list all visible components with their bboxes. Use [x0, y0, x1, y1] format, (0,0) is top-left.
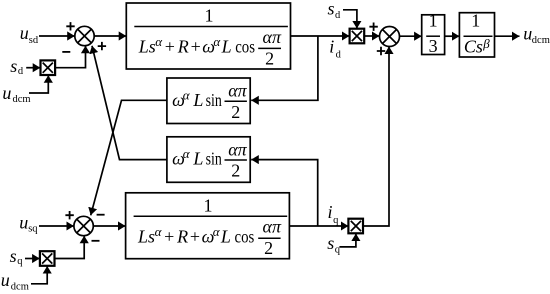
- svg-text:sin: sin: [206, 149, 222, 169]
- svg-text:β: β: [482, 36, 490, 51]
- summing junction S1: [75, 26, 94, 45]
- label u_dcm output: [523, 24, 550, 47]
- svg-text:sq: sq: [28, 224, 38, 235]
- svg-text:R: R: [176, 226, 188, 246]
- svg-text:1: 1: [205, 6, 214, 26]
- sign - at S3 lower right: [92, 240, 100, 242]
- svg-text:u: u: [2, 83, 11, 103]
- wire B1 output to multiplier M2: [291, 35, 350, 37]
- svg-text:1: 1: [204, 195, 213, 215]
- svg-text:α: α: [183, 87, 191, 102]
- wire B3 to block B4: [445, 35, 460, 37]
- block B6 omega^a L sin(api/2) lower: [167, 137, 250, 183]
- svg-text:2: 2: [265, 49, 274, 69]
- svg-text:d: d: [18, 66, 24, 77]
- block B4 transfer function 1/(Cs^b): [459, 11, 494, 58]
- multiplier M3: [40, 251, 55, 266]
- svg-text:απ: απ: [263, 27, 282, 47]
- sign + at S1 lower right: [98, 42, 106, 50]
- svg-text:d: d: [336, 50, 342, 61]
- block B3 gain 1/3: [422, 11, 445, 56]
- multiplier M2: [350, 29, 365, 44]
- svg-text:Ls: Ls: [138, 37, 156, 57]
- svg-text:q: q: [17, 256, 23, 267]
- svg-text:i: i: [328, 202, 333, 222]
- svg-text:R: R: [177, 37, 189, 57]
- sign - at S1 lower left: [62, 51, 70, 53]
- svg-text:dcm: dcm: [13, 94, 31, 105]
- wire B4 to output u_dcm: [495, 35, 520, 37]
- label s_q left: [10, 246, 24, 267]
- summing junction S3: [74, 216, 93, 235]
- svg-text:s: s: [10, 56, 17, 76]
- svg-text:α: α: [213, 34, 221, 49]
- svg-text:q: q: [333, 215, 339, 226]
- svg-text:cos: cos: [235, 226, 255, 246]
- svg-text:cos: cos: [235, 37, 255, 57]
- wire M2 output to summing junction S2: [364, 35, 379, 37]
- block B5 omega^a L sin(api/2) upper: [167, 78, 250, 124]
- svg-text:2: 2: [264, 238, 273, 258]
- wire u_sd input to summing junction S1: [39, 35, 75, 37]
- svg-text:s: s: [327, 233, 334, 253]
- label i_q: [328, 202, 340, 226]
- svg-text:i: i: [329, 37, 334, 57]
- wire M4 output up to summing junction S2: [363, 47, 389, 227]
- svg-text:+: +: [191, 37, 201, 57]
- svg-text:απ: απ: [263, 217, 282, 237]
- wire S2 to block B3: [400, 35, 422, 37]
- wire branch node i_q up to sin block B6: [251, 160, 318, 226]
- wire M1 output to S1 lower input: [55, 46, 85, 68]
- block B2 transfer function 1/(Ls^a+R+w^a L cos(api/2)): [126, 193, 290, 259]
- wire u_dcm to M3 bottom: [31, 266, 47, 284]
- svg-text:d: d: [335, 10, 341, 21]
- svg-text:sd: sd: [29, 35, 39, 46]
- svg-text:Ls: Ls: [137, 226, 155, 246]
- svg-text:α: α: [183, 146, 191, 161]
- svg-text:απ: απ: [228, 139, 247, 159]
- svg-text:u: u: [20, 23, 29, 43]
- wire s_q to M4 bottom: [339, 234, 356, 247]
- svg-text:+: +: [190, 226, 200, 246]
- label u_sq: [19, 212, 38, 234]
- wire s_q to multiplier M3: [25, 258, 40, 260]
- wire s_d to M2 top: [343, 10, 357, 29]
- wire s_d to multiplier M1: [26, 67, 40, 69]
- svg-text:2: 2: [231, 102, 240, 122]
- label s_d upper right: [328, 0, 342, 21]
- label u_sd: [20, 23, 39, 46]
- sign - at S3 upper right: [97, 214, 105, 216]
- svg-text:3: 3: [429, 36, 438, 56]
- svg-text:dcm: dcm: [532, 35, 550, 46]
- multiplier M4: [348, 219, 363, 234]
- wire u_dcm to M1 bottom: [29, 75, 48, 93]
- svg-text:u: u: [1, 270, 10, 290]
- svg-text:L: L: [192, 90, 203, 110]
- wire B5 output diagonal to summing junction S3: [91, 100, 167, 215]
- svg-text:α: α: [213, 224, 221, 239]
- sign + at S2 lower left: [377, 47, 385, 55]
- multiplier M1: [41, 60, 56, 75]
- svg-text:Cs: Cs: [464, 37, 483, 57]
- label s_q lower right: [327, 233, 341, 256]
- svg-text:s: s: [328, 0, 335, 19]
- svg-text:1: 1: [471, 11, 480, 31]
- sign + at S2 upper left: [369, 23, 377, 31]
- sign + at S1 upper left: [66, 22, 74, 30]
- svg-text:+: +: [165, 37, 175, 57]
- sign + at S3 upper left: [65, 211, 73, 219]
- wire S3 to block B2: [93, 225, 125, 227]
- wire M3 output to S3 lower input: [55, 236, 84, 259]
- wire B2 output to multiplier M4: [289, 225, 348, 227]
- svg-text:1: 1: [429, 11, 438, 31]
- svg-text:u: u: [19, 212, 28, 232]
- svg-text:α: α: [155, 224, 163, 239]
- wire B6 output diagonal to summing junction S1: [92, 46, 167, 160]
- svg-text:dcm: dcm: [11, 281, 29, 292]
- svg-text:α: α: [155, 34, 163, 49]
- wire u_sq input to summing junction S3: [39, 225, 74, 227]
- label u_dcm upper left: [2, 83, 30, 105]
- svg-text:L: L: [221, 37, 232, 57]
- svg-text:+: +: [164, 226, 174, 246]
- svg-text:L: L: [220, 226, 231, 246]
- svg-text:απ: απ: [228, 81, 247, 101]
- label i_d: [329, 37, 341, 61]
- svg-text:L: L: [192, 149, 203, 169]
- svg-text:2: 2: [231, 161, 240, 181]
- block B1 transfer function 1/(Ls^a+R+w^a L cos(api/2)): [126, 3, 290, 69]
- label u_dcm lower left: [1, 270, 29, 293]
- svg-text:sin: sin: [206, 90, 222, 110]
- label s_d left: [10, 56, 24, 77]
- wire S1 to block B1: [94, 35, 126, 37]
- svg-text:s: s: [10, 246, 17, 266]
- summing junction S2: [380, 27, 400, 47]
- wire branch node i_d down to sin block B5: [251, 36, 318, 100]
